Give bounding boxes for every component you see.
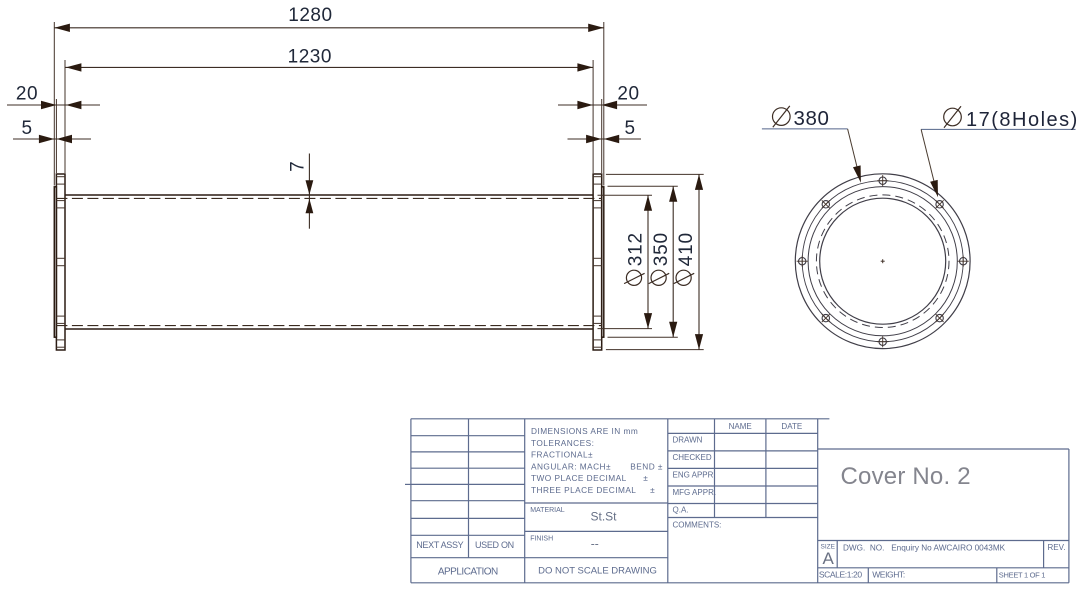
8 bolt holes D17 <box>797 175 969 347</box>
svg-text:TWO PLACE DECIMAL ±: TWO PLACE DECIMAL ± <box>531 473 648 483</box>
svg-text:SCALE:1:20: SCALE:1:20 <box>819 569 862 579</box>
flange outer circle D410 <box>795 174 970 349</box>
left flange (20mm) <box>56 174 65 350</box>
svg-text:DO NOT SCALE DRAWING: DO NOT SCALE DRAWING <box>538 565 657 576</box>
dimension D410 <box>674 174 703 349</box>
dimension 7 (wall thickness) <box>288 154 314 229</box>
svg-text:USED ON: USED ON <box>475 540 514 550</box>
svg-text:20: 20 <box>16 83 38 104</box>
hidden circle D312 <box>816 195 949 328</box>
left backing plate (5mm) <box>54 187 56 337</box>
tube outer wall bottom <box>65 328 593 330</box>
extension lines left <box>54 22 65 186</box>
bolt hole 6 <box>822 314 830 322</box>
right flange (20mm) <box>593 174 602 350</box>
bolt hole 3 <box>958 256 969 267</box>
svg-text:CHECKED: CHECKED <box>673 453 712 462</box>
tube inner bore hidden line top <box>56 197 601 199</box>
svg-text:SHEET 1 OF 1: SHEET 1 OF 1 <box>999 570 1045 579</box>
svg-text:350: 350 <box>651 232 672 266</box>
svg-text:20: 20 <box>617 83 639 104</box>
svg-text:NAME: NAME <box>729 422 752 431</box>
svg-text:5: 5 <box>21 118 32 139</box>
svg-text:FRACTIONAL±: FRACTIONAL± <box>531 450 593 460</box>
svg-text:MATERIAL: MATERIAL <box>530 507 565 514</box>
svg-text:FINISH: FINISH <box>530 535 553 542</box>
svg-text:17(8Holes): 17(8Holes) <box>966 109 1079 131</box>
bolt hole 5 <box>877 336 888 347</box>
left flange bolt hole hidden lines <box>56 177 65 348</box>
right flange bolt hole hidden lines <box>593 177 602 348</box>
right backing plate (5mm) <box>602 187 604 337</box>
svg-text:1230: 1230 <box>288 47 332 68</box>
svg-text:A: A <box>823 549 835 568</box>
svg-text:380: 380 <box>794 107 830 130</box>
svg-text:COMMENTS:: COMMENTS: <box>673 521 722 530</box>
leader D380 <box>762 106 861 183</box>
row labels <box>673 435 722 529</box>
svg-text:312: 312 <box>626 232 647 266</box>
bolt circle D380 <box>802 181 963 342</box>
title block verticals <box>469 419 818 583</box>
svg-text:St.St: St.St <box>590 510 617 524</box>
middle section rows <box>525 503 668 531</box>
svg-text:1280: 1280 <box>288 5 332 26</box>
svg-text:WEIGHT:: WEIGHT: <box>872 569 905 579</box>
dimension D312 <box>624 195 652 328</box>
svg-text:Cover No. 2: Cover No. 2 <box>841 463 971 490</box>
extension lines diameter dims <box>598 174 704 349</box>
right section rows <box>818 449 1069 583</box>
svg-text:MFG APPR.: MFG APPR. <box>673 488 717 497</box>
svg-text:ENG APPR.: ENG APPR. <box>673 470 716 479</box>
left section rows <box>411 436 668 558</box>
leader D17 (8 holes) <box>921 106 1079 197</box>
svg-text:THREE PLACE DECIMAL ±: THREE PLACE DECIMAL ± <box>531 485 655 495</box>
dimension 5 left <box>13 118 91 143</box>
bolt hole 2 <box>936 200 944 208</box>
svg-text:DWG. NO. Enquiry No AWCAIRO: DWG. NO. Enquiry No AWCAIRO 0043MK <box>843 544 1006 553</box>
svg-text:APPLICATION: APPLICATION <box>438 567 498 578</box>
dimension 5 right <box>568 118 642 143</box>
bolt hole 1 <box>877 175 888 186</box>
svg-text:REV.: REV. <box>1048 543 1066 552</box>
svg-text:DRAWN: DRAWN <box>673 435 703 444</box>
svg-text:5: 5 <box>624 118 635 139</box>
svg-text:DATE: DATE <box>781 422 802 431</box>
svg-text:410: 410 <box>676 232 697 266</box>
svg-text:NEXT ASSY: NEXT ASSY <box>416 540 463 550</box>
dimension 20 left <box>7 83 100 109</box>
plate circle D350 <box>808 187 957 336</box>
title block outer border <box>411 419 1069 583</box>
svg-text:--: -- <box>591 537 599 551</box>
dimension D350 <box>649 186 678 337</box>
extension lines right <box>593 22 604 186</box>
tube inner bore hidden line bottom <box>56 325 601 327</box>
name section rows <box>668 433 818 517</box>
bore circle D298 <box>820 198 946 324</box>
svg-text:Q.A.: Q.A. <box>673 506 689 515</box>
svg-text:ANGULAR: MACH± BEND ±: ANGULAR: MACH± BEND ± <box>531 461 663 471</box>
svg-text:TOLERANCES:: TOLERANCES: <box>531 438 594 448</box>
dimension 20 right <box>558 83 647 109</box>
dimension 1230 <box>65 47 593 72</box>
border tick <box>405 483 411 485</box>
dimension 1280 <box>54 5 604 32</box>
tolerance note block <box>531 426 663 495</box>
svg-text:DIMENSIONS ARE IN mm: DIMENSIONS ARE IN mm <box>531 426 638 436</box>
center mark <box>881 259 885 263</box>
tube outer wall top <box>65 194 593 196</box>
bolt hole 4 <box>936 314 944 322</box>
bolt hole 7 <box>797 256 808 267</box>
svg-text:7: 7 <box>288 161 309 172</box>
bolt hole 8 <box>822 200 830 208</box>
